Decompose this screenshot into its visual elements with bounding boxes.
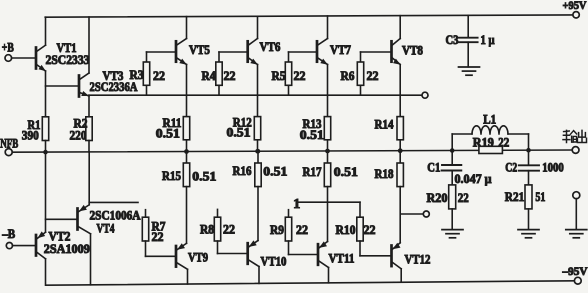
wire VT1 emitter down	[45, 71, 47, 117]
ground R20	[442, 230, 463, 238]
svg-text:R18: R18	[375, 167, 394, 181]
transistor VT4	[78, 205, 141, 236]
ground R21	[518, 230, 539, 238]
wire VT3 collector to +95V rail	[88, 17, 90, 73]
node R11 output junction	[184, 149, 189, 154]
svg-text:1 μ: 1 μ	[481, 33, 495, 47]
svg-text:+B: +B	[2, 41, 14, 55]
wire VT5 collector to +95V rail	[186, 17, 188, 39]
svg-text:0.51: 0.51	[300, 128, 324, 142]
resistor R8	[200, 209, 235, 253]
transistor VT9	[176, 243, 208, 269]
svg-text:51: 51	[535, 190, 545, 204]
wire +95V top rail	[45, 15, 573, 17]
node R12 output junction	[255, 149, 260, 154]
wire R9 to VT11 base	[289, 254, 319, 256]
svg-text:VT9: VT9	[188, 251, 208, 265]
wire VT9 emitter up	[186, 187, 188, 244]
wire VT1 collector to +95V rail	[45, 17, 47, 45]
wire -95V bottom rail	[46, 281, 575, 285]
svg-text:L1: L1	[483, 113, 496, 127]
power terminal +95V	[563, 0, 588, 18]
svg-text:VT2: VT2	[49, 229, 71, 243]
transistor VT5	[176, 39, 210, 65]
resistor R12	[227, 116, 261, 152]
capacitor C2	[505, 150, 564, 185]
svg-text:R17: R17	[303, 165, 322, 179]
transistor VT8	[392, 39, 424, 65]
svg-text:R8: R8	[200, 223, 214, 237]
node label 1	[293, 196, 300, 211]
wire bottom drive tap	[401, 213, 423, 215]
resistor R10	[336, 202, 376, 256]
svg-text:R15: R15	[162, 169, 181, 183]
resistor R15	[162, 152, 216, 187]
svg-text:22: 22	[364, 223, 376, 237]
resistor R19	[473, 135, 510, 153]
wire top bias bus	[89, 94, 422, 96]
transistor VT1	[36, 41, 90, 71]
node NFB junction	[43, 150, 48, 155]
wire VT7 emitter down	[327, 65, 329, 117]
wire VT7 collector to +95V rail	[327, 16, 329, 39]
svg-text:R9: R9	[270, 223, 284, 237]
wire VT8 collector to +95V rail	[399, 16, 401, 39]
wire VT11 collector to -95V rail	[328, 268, 330, 283]
wire R6 to VT8 base	[361, 51, 392, 53]
svg-text:22: 22	[224, 69, 236, 83]
svg-text:22: 22	[294, 69, 306, 83]
svg-text:0.51: 0.51	[156, 126, 180, 140]
transistor VT6	[248, 39, 281, 65]
node R15 output junction	[184, 149, 189, 154]
svg-text:VT4: VT4	[97, 222, 116, 236]
wire +B to VT1 base	[12, 57, 36, 59]
wire VT4 emitter up to output bus	[88, 152, 90, 205]
wire R5 to VT7 base	[289, 51, 318, 53]
svg-text:2SC2333: 2SC2333	[46, 53, 90, 67]
resistor R16	[233, 151, 288, 186]
wire VT12 collector to -95V rail	[400, 269, 402, 282]
wire R3 to VT5 base	[147, 51, 177, 53]
transistor VT10	[248, 240, 287, 268]
svg-text:22: 22	[367, 69, 379, 83]
svg-text:22: 22	[498, 135, 509, 149]
svg-text:22: 22	[458, 191, 469, 205]
wire VT5 emitter down	[186, 65, 188, 117]
transistor VT2	[36, 229, 90, 258]
terminal NFB	[0, 137, 18, 156]
resistor R14	[375, 117, 404, 151]
wire VT4 collector to -95V rail	[90, 234, 92, 285]
wire -B to VT2 base	[13, 245, 37, 247]
svg-text:R10: R10	[336, 223, 356, 237]
wire VT11 emitter up	[327, 187, 329, 242]
svg-text:0.047 μ: 0.047 μ	[455, 172, 492, 186]
svg-text:2SA1009: 2SA1009	[44, 242, 90, 256]
resistor R11	[156, 116, 190, 152]
node L1 left junction	[450, 148, 455, 153]
svg-text:VT11: VT11	[329, 252, 355, 266]
svg-text:C3: C3	[446, 33, 459, 47]
svg-text:0.51: 0.51	[192, 169, 216, 183]
svg-text:–95V: –95V	[562, 266, 588, 278]
svg-text:C2: C2	[505, 161, 517, 175]
svg-text:22: 22	[152, 230, 164, 244]
svg-text:VT12: VT12	[405, 253, 431, 267]
svg-text:390: 390	[22, 129, 39, 143]
resistor R5	[272, 52, 306, 95]
transistor VT3	[79, 69, 138, 97]
node R14 output junction	[398, 148, 403, 153]
svg-text:1000: 1000	[542, 161, 564, 175]
svg-text:R6: R6	[341, 69, 355, 83]
node R13 output junction	[325, 149, 330, 154]
transistor VT7	[317, 39, 351, 65]
terminal output	[572, 147, 579, 154]
svg-text:R4: R4	[202, 69, 217, 83]
wire bottom bias bus segment A	[89, 201, 138, 203]
svg-text:R5: R5	[272, 69, 286, 83]
wire output/NFB bus	[12, 150, 572, 152]
resistor R4	[202, 52, 236, 95]
wire R4 to VT6 base	[219, 51, 248, 53]
svg-text:0.51: 0.51	[227, 126, 251, 140]
svg-text:VT7: VT7	[330, 43, 351, 57]
ground output terminal	[566, 230, 587, 238]
svg-text:+95V: +95V	[563, 0, 588, 12]
resistor R1	[22, 117, 49, 153]
node R18 output junction	[398, 148, 403, 153]
svg-text:220: 220	[70, 129, 87, 143]
wire R10 to VT12 base	[360, 255, 392, 257]
svg-text:R3: R3	[130, 68, 144, 82]
svg-text:R16: R16	[233, 164, 252, 178]
terminal -B	[1, 227, 15, 249]
terminal output ground	[573, 192, 580, 230]
wire VT10 collector to -95V rail	[258, 267, 260, 284]
svg-text:R21: R21	[505, 190, 525, 204]
resistor R17	[303, 151, 358, 187]
svg-text:2SC2336A: 2SC2336A	[90, 80, 138, 94]
svg-text:1: 1	[293, 196, 300, 211]
terminal +B	[2, 41, 14, 62]
node L1 right junction	[526, 148, 531, 153]
wire VT9 collector to -95V rail	[187, 269, 189, 284]
resistor R9	[270, 210, 308, 255]
svg-text:VT6: VT6	[260, 40, 281, 54]
svg-text:–B: –B	[1, 227, 15, 241]
svg-text:0.51: 0.51	[263, 165, 287, 179]
wire VT2 collector to -95V rail	[45, 259, 47, 285]
resistor R7	[142, 210, 165, 257]
resistor R2	[70, 95, 93, 152]
wire VT12 emitter up	[399, 187, 401, 243]
wire to VT4 base	[46, 218, 78, 220]
resistor R20	[427, 185, 469, 230]
transistor VT12	[392, 243, 431, 269]
transistor VT11	[318, 241, 355, 267]
wire VT6 collector to +95V rail	[257, 16, 259, 38]
capacitor C3	[446, 15, 495, 66]
svg-text:2SC1006A: 2SC1006A	[90, 208, 141, 222]
node R16 output junction	[256, 149, 261, 154]
svg-text:VT5: VT5	[189, 43, 210, 57]
svg-text:VT10: VT10	[261, 255, 287, 269]
node R17 output junction	[325, 149, 330, 154]
svg-text:0.51: 0.51	[334, 165, 358, 179]
terminal bottom drive	[423, 211, 429, 217]
capacitor C1	[427, 151, 491, 186]
wire VT10 emitter up	[257, 187, 259, 241]
terminal top drive	[422, 92, 428, 98]
svg-text:NFB: NFB	[0, 137, 18, 151]
svg-text:R20: R20	[427, 191, 448, 205]
resistor R3	[130, 52, 166, 95]
wire VT2 emitter up to output bus	[45, 152, 47, 232]
inductor L1	[452, 113, 528, 151]
wire R7 to VT9 base	[146, 255, 177, 257]
label output (shuchu)	[563, 130, 587, 142]
wire VT8 emitter down	[399, 65, 401, 117]
svg-text:R19: R19	[473, 135, 494, 149]
svg-text:VT8: VT8	[402, 44, 423, 58]
svg-text:R14: R14	[375, 118, 395, 132]
power terminal -95V	[562, 266, 588, 284]
resistor R21	[505, 185, 546, 230]
wire bottom bias bus segment B	[298, 201, 360, 203]
ground C3	[459, 67, 480, 75]
wire R8 to VT10 base	[218, 253, 248, 255]
resistor R18	[375, 151, 404, 187]
svg-text:22: 22	[153, 69, 165, 83]
svg-text:22: 22	[296, 223, 308, 237]
wire VT6 emitter down	[257, 65, 259, 117]
svg-text:C1: C1	[427, 161, 440, 175]
resistor R13	[300, 117, 331, 151]
svg-text:22: 22	[223, 223, 235, 237]
wire VT1 emitter to VT3 base	[46, 85, 80, 87]
resistor R6	[341, 52, 379, 95]
